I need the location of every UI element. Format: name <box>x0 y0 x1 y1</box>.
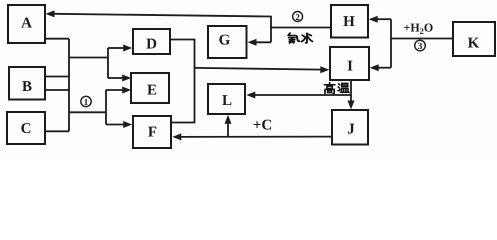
arrowhead into E upper <box>122 75 131 82</box>
wire C right <box>45 130 69 132</box>
wire bus vertical lower <box>105 90 107 125</box>
node A <box>8 5 45 43</box>
wire into D <box>108 47 124 49</box>
wire into F left <box>106 124 125 126</box>
node F <box>133 116 171 148</box>
node J <box>332 110 368 145</box>
svg-text:+C: +C <box>253 118 272 134</box>
arrowhead into G <box>248 39 257 46</box>
svg-text:L: L <box>222 93 232 109</box>
node H <box>331 5 368 38</box>
wire A right <box>45 38 69 40</box>
label anshui (ammonia water) <box>288 33 312 43</box>
svg-text:C: C <box>21 121 32 137</box>
wire into E upper <box>108 77 123 79</box>
wire into G <box>254 41 271 43</box>
wire into I left <box>195 68 323 70</box>
wire bus vertical upper <box>107 48 109 78</box>
arrowhead into A <box>46 10 55 17</box>
wire from J left with +C <box>179 136 332 138</box>
wire vertical junction right of G <box>270 16 272 43</box>
svg-text:3: 3 <box>418 42 423 52</box>
wire into E lower <box>106 89 123 91</box>
wire up into L bottom <box>227 122 229 137</box>
svg-text:2: 2 <box>295 12 300 22</box>
wire I down to J <box>350 80 352 103</box>
wire top line into A <box>54 14 271 17</box>
arrowhead into L right <box>246 92 255 99</box>
arrowhead into D <box>123 45 132 52</box>
wire into L right <box>254 94 351 96</box>
svg-text:H: H <box>343 14 355 30</box>
arrowhead into F right <box>172 133 181 140</box>
wire B lower <box>45 89 69 91</box>
node K <box>453 22 495 56</box>
arrowhead into I left <box>320 66 329 73</box>
node B <box>9 67 45 100</box>
label circled 3 <box>415 40 426 52</box>
arrowhead into L bottom <box>225 115 232 124</box>
arrowhead into J top <box>348 101 355 110</box>
node C <box>7 112 45 144</box>
svg-text:A: A <box>21 16 32 32</box>
arrowhead into H <box>369 16 378 23</box>
svg-text:I: I <box>347 59 353 75</box>
wire left vertical bus <box>68 39 70 132</box>
label circled 1 <box>81 96 91 107</box>
node I <box>330 47 369 80</box>
wire from H left <box>270 27 331 29</box>
wire D right to F right <box>170 40 195 123</box>
wire B upper <box>45 76 69 78</box>
svg-text:K: K <box>468 36 480 52</box>
node D <box>133 29 170 54</box>
svg-text:+H2O: +H2O <box>404 21 434 37</box>
node E <box>131 73 169 103</box>
svg-text:G: G <box>219 33 231 49</box>
wire vertical right of H and I <box>390 19 392 67</box>
arrowhead into F left <box>123 121 132 128</box>
svg-text:J: J <box>347 122 355 138</box>
svg-text:1: 1 <box>84 97 89 107</box>
arrowhead into E lower <box>122 87 131 94</box>
arrowhead into I right <box>370 64 379 71</box>
wire middle horizontal <box>69 57 108 59</box>
node G <box>208 26 247 58</box>
label circled 2 <box>293 12 303 22</box>
wire line with circled 1 <box>69 111 106 113</box>
svg-text:F: F <box>148 125 157 141</box>
wire from K left <box>391 38 453 40</box>
wire into H right <box>375 18 391 20</box>
svg-text:E: E <box>147 83 157 99</box>
svg-text:D: D <box>146 37 157 53</box>
svg-text:B: B <box>22 79 32 95</box>
node L <box>208 84 245 114</box>
label gaowen (high temperature) <box>324 83 349 94</box>
wire into I right <box>376 67 391 69</box>
